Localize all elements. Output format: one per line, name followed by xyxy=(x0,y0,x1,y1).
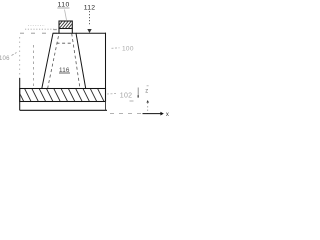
svg-text:102: 102 xyxy=(120,93,133,100)
isolation band 104 (hatched) xyxy=(17,88,106,102)
dashed top-surface line (left of gate) xyxy=(20,32,57,34)
substrate bottom line xyxy=(20,109,107,111)
left hidden edge (dotted vertical) xyxy=(19,37,21,78)
inner gate boundary (dashed) xyxy=(57,42,74,44)
z axis arrow xyxy=(146,100,149,103)
dashed continuation to axis xyxy=(110,112,143,114)
leader for 102 xyxy=(107,93,117,96)
hidden gate-top dotted line xyxy=(25,28,57,30)
very faint dotted ghost line xyxy=(28,25,45,27)
svg-text:z: z xyxy=(145,88,148,94)
leader for 110 xyxy=(65,10,67,21)
left solid edge xyxy=(19,78,21,110)
substrate right edge xyxy=(105,101,107,110)
svg-text:106: 106 xyxy=(0,56,10,62)
inner gate trapezoid legs (dashed) xyxy=(48,34,80,89)
arrowhead for 112 xyxy=(87,29,91,33)
x axis arrow xyxy=(143,113,161,115)
underline of 110 xyxy=(57,7,69,9)
bracket mark xyxy=(137,88,139,98)
leader for 106 xyxy=(12,53,17,56)
small faint mark xyxy=(130,100,134,102)
right vertical edge xyxy=(105,33,107,102)
tick left of box xyxy=(54,29,57,31)
svg-text:x: x xyxy=(166,112,169,118)
svg-text:100: 100 xyxy=(122,45,134,52)
solid top-surface line (right of gate) xyxy=(76,32,106,34)
hidden fin edge (dashed vertical) 106 xyxy=(33,45,35,88)
svg-text:112: 112 xyxy=(84,5,95,12)
hard-mask box 110 (hatched) xyxy=(55,19,79,34)
svg-text:110: 110 xyxy=(58,1,70,8)
leader for 112 (dotted) xyxy=(89,11,91,26)
leader for 100 xyxy=(112,47,120,50)
gate spacer trapezoid (solid) xyxy=(42,33,86,88)
